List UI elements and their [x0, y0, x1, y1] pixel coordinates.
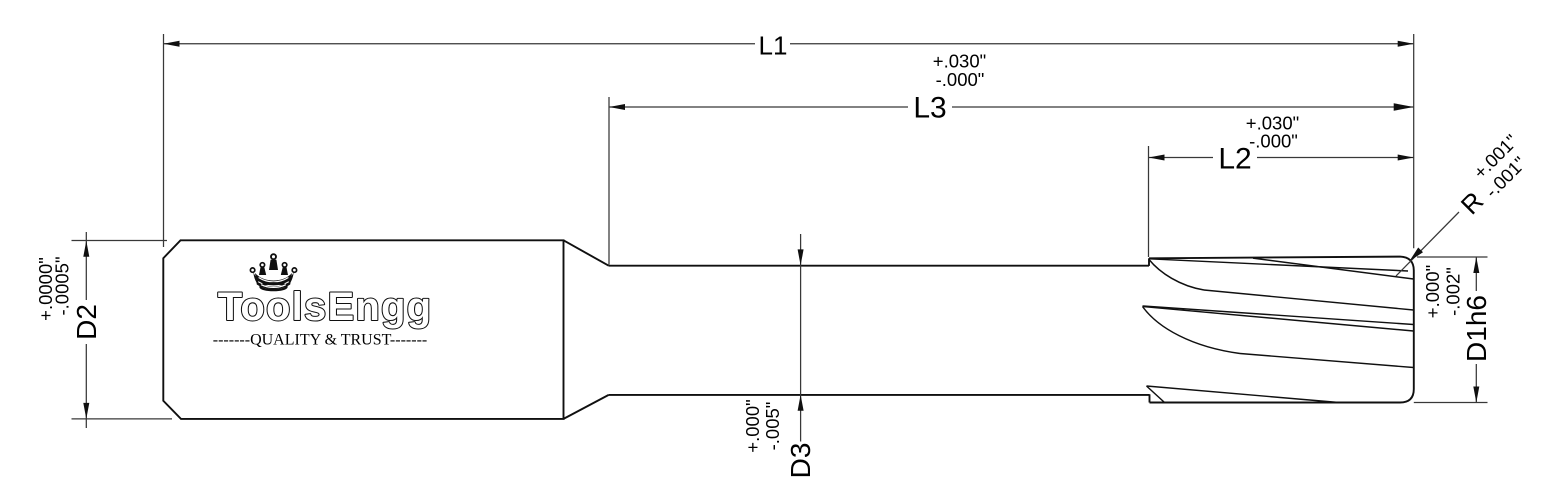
flute left top step	[1148, 258, 1150, 266]
svg-text:-.000": -.000"	[936, 69, 985, 90]
L3 arrow left	[609, 104, 625, 110]
D3 arrow bottom	[798, 395, 804, 411]
svg-text:-.000": -.000"	[1249, 131, 1298, 152]
flute body outline	[1149, 257, 1414, 403]
flute 3 edge	[1147, 386, 1340, 403]
svg-text:-.002": -.002"	[1443, 267, 1464, 316]
flute 1 edge b	[1253, 258, 1414, 279]
logo crown	[250, 254, 296, 290]
svg-text:D2: D2	[71, 304, 102, 340]
L2 arrow left	[1149, 155, 1165, 161]
L3 dimension line	[609, 106, 1414, 108]
flute 2 edge b	[1143, 307, 1414, 332]
L3 extension line left	[608, 97, 610, 265]
L2 dimension line	[1149, 157, 1414, 159]
neck top line	[609, 265, 1149, 267]
svg-text:D3: D3	[785, 443, 816, 479]
shank outline	[163, 240, 563, 419]
svg-text:-------QUALITY & TRUST-------: -------QUALITY & TRUST-------	[213, 332, 427, 349]
D1h6 arrow top	[1473, 257, 1479, 273]
D2 dimension line	[85, 232, 87, 428]
svg-text:L3: L3	[913, 92, 946, 125]
L1 extension line left	[163, 34, 165, 247]
L3 arrow right	[1394, 103, 1414, 111]
svg-text:L1: L1	[759, 31, 788, 61]
D2 arrow top	[83, 241, 89, 257]
L2 extension line left	[1148, 146, 1150, 257]
taper cone top	[564, 240, 609, 265]
taper cone bottom	[564, 395, 609, 419]
D3 arrow top	[798, 249, 804, 265]
flute 1 runout curve	[1149, 260, 1204, 291]
D1h6 dimension line	[1475, 257, 1477, 403]
flute 1 valley line	[1204, 290, 1414, 310]
D2 arrow bottom	[83, 403, 89, 419]
neck bottom line	[609, 394, 1150, 396]
L1 arrow right	[1398, 41, 1414, 47]
svg-text:-.0005": -.0005"	[52, 256, 73, 315]
flute 3 runout	[1147, 386, 1165, 402]
D1h6 arrow bottom	[1473, 387, 1479, 403]
svg-text:-.005": -.005"	[762, 402, 783, 451]
D1h6 extension line bottom	[1414, 402, 1488, 404]
flute 1 edge a	[1149, 259, 1408, 271]
flute 2 runout curve	[1143, 307, 1241, 354]
svg-text:+.000": +.000"	[742, 399, 763, 452]
R leader arrow	[1410, 248, 1424, 262]
R leader line	[1396, 212, 1459, 276]
L1 dimension line	[164, 43, 1414, 45]
svg-text:+.000": +.000"	[1422, 265, 1443, 318]
D2 extension line top	[72, 240, 168, 242]
L1 arrow left	[164, 41, 180, 47]
flute 2 valley line	[1240, 354, 1414, 368]
L1 L3 L2 shared extension line right	[1413, 34, 1415, 248]
flute 2 edge a	[1143, 306, 1414, 325]
D3 dimension line	[800, 234, 802, 442]
D2 extension line bottom	[72, 418, 173, 420]
L2 arrow right	[1398, 155, 1414, 161]
svg-text:L2: L2	[1218, 143, 1251, 176]
svg-text:ToolsEngg: ToolsEngg	[218, 285, 432, 329]
D1h6 extension line top	[1417, 256, 1488, 258]
svg-text:D1h6: D1h6	[1461, 295, 1492, 362]
flute left bottom step	[1149, 394, 1151, 402]
